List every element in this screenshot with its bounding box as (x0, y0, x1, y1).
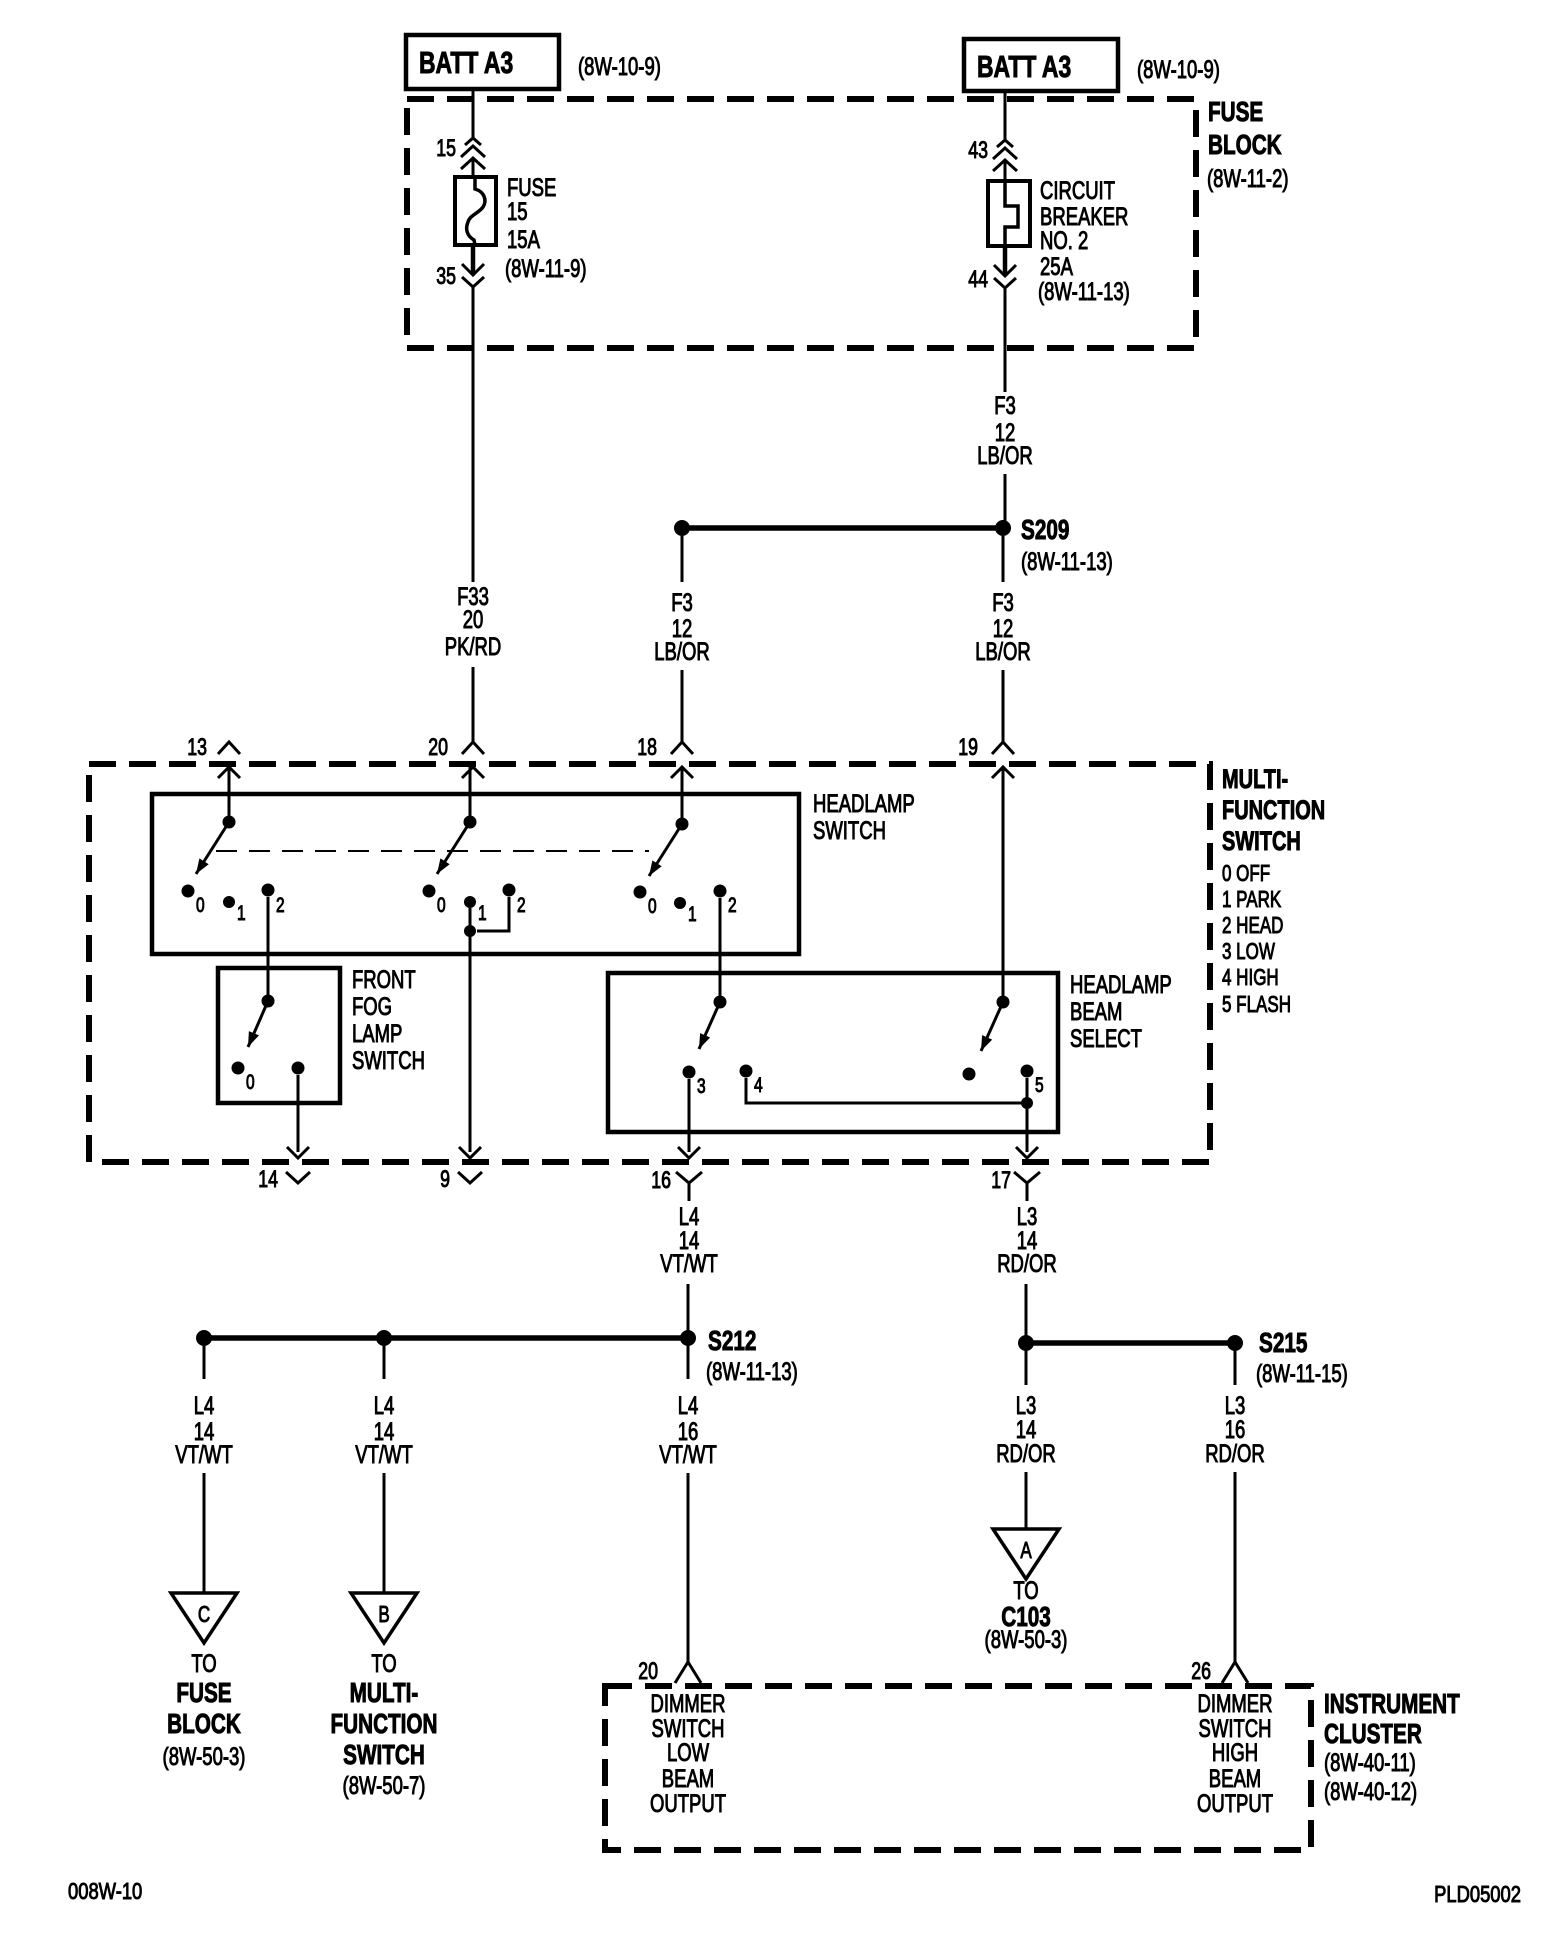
switch pole C wiper (649, 818, 689, 877)
switch pole A wiper (196, 816, 236, 875)
pole C contact 0 (634, 886, 657, 918)
svg-text:NO. 2: NO. 2 (1040, 226, 1088, 254)
connector pin 44 (968, 265, 1016, 293)
wire S209 right branch upper (1002, 536, 1005, 582)
svg-text:PLD05002: PLD05002 (1434, 1882, 1521, 1907)
wire to connector A (1025, 1472, 1028, 1528)
label wire F3 12 LB/OR (right) (975, 588, 1031, 665)
svg-text:1: 1 (237, 901, 246, 925)
svg-text:FUNCTION: FUNCTION (330, 1709, 437, 1740)
svg-text:L4: L4 (194, 1391, 215, 1419)
wire S212 stub middle (383, 1346, 386, 1379)
fuse block enclosure (407, 99, 1196, 348)
svg-text:VT/WT: VT/WT (175, 1440, 233, 1468)
label HEADLAMP SWITCH (813, 789, 915, 844)
svg-text:20: 20 (463, 605, 484, 633)
label wire F33 20 PK/RD (445, 582, 502, 660)
svg-text:L4: L4 (678, 1391, 699, 1419)
svg-text:HEADLAMP: HEADLAMP (1070, 970, 1172, 998)
wire S209 left branch upper (681, 536, 684, 582)
svg-text:14: 14 (258, 1167, 278, 1193)
svg-text:008W-10: 008W-10 (68, 1879, 142, 1904)
svg-text:OUTPUT: OUTPUT (650, 1789, 726, 1817)
wire breaker to pin 44 (1003, 246, 1008, 276)
svg-text:20: 20 (638, 1659, 658, 1685)
svg-text:FOG: FOG (352, 992, 392, 1020)
svg-text:4 HIGH: 4 HIGH (1222, 966, 1279, 991)
fog switch contact 0 (232, 1062, 255, 1094)
svg-text:0: 0 (196, 893, 205, 917)
svg-text:FUSE: FUSE (1208, 97, 1263, 128)
beam select contact 5 (1021, 1065, 1044, 1097)
beam select left wiper (699, 996, 727, 1050)
wire pin16 to S212 (687, 1284, 690, 1332)
label wire L3 14 RD/OR (pin17) (997, 1202, 1057, 1277)
svg-text:18: 18 (637, 735, 657, 761)
headlamp beam select box (608, 973, 1058, 1132)
svg-text:VT/WT: VT/WT (659, 1440, 717, 1468)
svg-text:LAMP: LAMP (352, 1019, 402, 1047)
splice S215 (1018, 1328, 1348, 1388)
svg-text:SELECT: SELECT (1070, 1024, 1142, 1052)
wire fuse to pin 35 (471, 245, 476, 275)
node BATT A3 feed (right) (964, 39, 1118, 91)
svg-text:BLOCK: BLOCK (167, 1709, 241, 1740)
svg-text:43: 43 (968, 138, 988, 164)
label wire F3 12 LB/OR (left) (654, 588, 710, 665)
junction node beam select (1021, 1097, 1033, 1109)
label fuse 15 15A (505, 173, 587, 282)
svg-text:2: 2 (728, 893, 737, 917)
label dimmer switch low beam output (650, 1689, 726, 1817)
wire contact 3 to pin 16 (688, 1079, 691, 1152)
svg-text:SWITCH: SWITCH (813, 816, 886, 844)
wire pin 18 to pole C (681, 767, 684, 824)
svg-text:BLOCK: BLOCK (1208, 130, 1282, 161)
svg-text:20: 20 (428, 735, 448, 761)
svg-text:SWITCH: SWITCH (343, 1740, 425, 1771)
connector pin 13 (MFS) (187, 735, 240, 778)
connector pin 26 (instrument cluster) (1191, 1659, 1248, 1685)
pole B contact 0 (423, 885, 446, 917)
svg-text:BATT A3: BATT A3 (419, 45, 513, 80)
wire pole C contact 2 to beam select (719, 898, 722, 1002)
svg-text:15: 15 (436, 136, 456, 162)
pole C contact 1 (674, 897, 697, 926)
multi-function switch enclosure (89, 764, 1210, 1162)
svg-text:1: 1 (688, 902, 697, 926)
svg-text:2: 2 (276, 893, 285, 917)
label TO FUSE BLOCK (163, 1649, 246, 1770)
link contact 4 to output (746, 1078, 1027, 1103)
svg-text:(8W-11-2): (8W-11-2) (1207, 164, 1289, 192)
wire F3 breaker to S209 (1004, 288, 1007, 392)
svg-text:16: 16 (651, 1168, 671, 1194)
svg-text:13: 13 (187, 735, 207, 761)
svg-text:FRONT: FRONT (352, 965, 416, 993)
switch pole B wiper (437, 816, 477, 875)
svg-text:4: 4 (754, 1073, 763, 1097)
svg-text:LB/OR: LB/OR (654, 637, 710, 665)
label MULTI-FUNCTION SWITCH (1222, 764, 1325, 1018)
label dimmer switch high beam output (1197, 1689, 1273, 1817)
connector pin 16 (MFS exit) (651, 1147, 702, 1201)
connector B to multi-function switch (351, 1593, 417, 1643)
junction node pole B (464, 925, 476, 937)
svg-text:19: 19 (958, 735, 978, 761)
front fog lamp switch box (218, 968, 340, 1103)
svg-text:1: 1 (478, 901, 487, 925)
label FUSE BLOCK (1207, 97, 1289, 193)
connector pin 35 (436, 264, 484, 290)
pole A contact 2 (262, 884, 285, 917)
link pole B contact 2 to junction (477, 897, 509, 931)
wire S212 stub left (203, 1346, 206, 1379)
wire fog switch output (297, 1075, 300, 1152)
svg-text:15A: 15A (507, 225, 540, 253)
svg-text:RD/OR: RD/OR (997, 1249, 1057, 1277)
svg-text:C: C (198, 1603, 210, 1628)
label TO MULTI-FUNCTION SWITCH (330, 1649, 437, 1799)
connector pin 15 (436, 136, 485, 169)
svg-text:MULTI-: MULTI- (1222, 764, 1288, 795)
svg-text:RD/OR: RD/OR (996, 1439, 1056, 1467)
connector pin 19 (MFS) (958, 735, 1014, 778)
svg-text:3: 3 (697, 1074, 706, 1098)
svg-text:(8W-11-15): (8W-11-15) (1256, 1359, 1348, 1387)
svg-text:B: B (378, 1603, 389, 1628)
svg-text:(8W-50-7): (8W-50-7) (343, 1771, 426, 1799)
wire S215 stub left (1025, 1351, 1028, 1385)
svg-text:0: 0 (648, 894, 657, 918)
svg-text:(8W-50-3): (8W-50-3) (163, 1742, 246, 1770)
svg-text:LB/OR: LB/OR (975, 637, 1031, 665)
svg-text:INSTRUMENT: INSTRUMENT (1324, 1689, 1460, 1720)
fog switch output contact (292, 1062, 305, 1075)
svg-text:S215: S215 (1259, 1328, 1308, 1359)
svg-text:44: 44 (968, 267, 988, 293)
svg-text:(8W-50-3): (8W-50-3) (985, 1625, 1068, 1653)
svg-text:BEAM: BEAM (1070, 997, 1122, 1025)
instrument cluster enclosure (605, 1686, 1311, 1850)
svg-text:0: 0 (437, 893, 446, 917)
svg-text:0 OFF: 0 OFF (1222, 862, 1270, 887)
wire pin 13 to pole A (228, 767, 231, 822)
svg-text:HIGH: HIGH (1212, 1738, 1258, 1766)
label wire L4 14 VT/WT (left) (175, 1391, 233, 1468)
svg-text:RD/OR: RD/OR (1205, 1439, 1265, 1467)
svg-text:S209: S209 (1021, 515, 1069, 546)
wire pin 20 to pole B (469, 767, 472, 822)
label HEADLAMP BEAM SELECT (1070, 970, 1172, 1052)
connector pin 20 (instrument cluster) (638, 1659, 701, 1685)
svg-text:5: 5 (1035, 1073, 1044, 1097)
svg-text:PK/RD: PK/RD (445, 632, 502, 660)
wire to connector C (203, 1473, 206, 1592)
svg-text:5 FLASH: 5 FLASH (1222, 993, 1291, 1018)
svg-text:(8W-40-11): (8W-40-11) (1324, 1748, 1416, 1776)
wire pin 19 into beam select (1002, 767, 1005, 1002)
svg-text:15: 15 (507, 197, 528, 225)
beam select contact 4 (740, 1065, 763, 1097)
label wire L4 14 VT/WT (pin16) (660, 1202, 718, 1277)
svg-text:17: 17 (991, 1168, 1011, 1194)
svg-text:TO: TO (371, 1649, 396, 1677)
fuse F15 15A (455, 177, 496, 245)
svg-text:F3: F3 (994, 391, 1016, 419)
wire to instrument cluster pin 26 (1234, 1472, 1237, 1662)
pole B contact 2 (503, 884, 526, 917)
splice S209 (674, 515, 1113, 576)
svg-text:L4: L4 (374, 1391, 395, 1419)
svg-text:A: A (1020, 1539, 1032, 1564)
wire battery to fuse F15 (472, 89, 475, 177)
svg-text:BATT A3: BATT A3 (977, 49, 1071, 84)
svg-text:VT/WT: VT/WT (355, 1440, 413, 1468)
svg-text:1 PARK: 1 PARK (1222, 888, 1282, 913)
wire breaker feed (1004, 91, 1007, 181)
label INSTRUMENT CLUSTER (1324, 1689, 1460, 1806)
circuit breaker No. 2 (988, 181, 1030, 246)
label FRONT FOG LAMP SWITCH (352, 965, 425, 1074)
svg-text:35: 35 (436, 264, 456, 290)
svg-text:(8W-11-13): (8W-11-13) (1038, 277, 1130, 305)
pole C contact 2 (714, 885, 737, 917)
node BATT A3 feed (left) (406, 35, 559, 89)
svg-text:0: 0 (246, 1070, 255, 1094)
label wire L4 16 VT/WT (659, 1391, 717, 1468)
svg-text:FUNCTION: FUNCTION (1222, 795, 1325, 826)
connector C to fuse block (171, 1593, 237, 1643)
svg-text:(8W-10-9): (8W-10-9) (578, 52, 661, 80)
headlamp switch box (152, 794, 799, 954)
svg-text:LB/OR: LB/OR (977, 441, 1033, 469)
wire S215 stub right (1234, 1351, 1237, 1385)
svg-text:26: 26 (1191, 1659, 1211, 1685)
svg-text:F3: F3 (671, 588, 693, 616)
wire S212 stub right (687, 1346, 690, 1379)
svg-text:CIRCUIT: CIRCUIT (1040, 176, 1115, 204)
connector A to C103 (993, 1529, 1059, 1579)
wire contact 5 to pin 17 (1026, 1078, 1029, 1152)
connector pin 17 (MFS exit) (991, 1147, 1040, 1201)
svg-text:(8W-11-13): (8W-11-13) (1021, 547, 1113, 575)
wire pole A contact 2 to fog switch (267, 897, 270, 1001)
label wire L3 14 RD/OR (left) (996, 1391, 1056, 1467)
connector pin 14 (MFS exit) (258, 1147, 310, 1193)
svg-text:CLUSTER: CLUSTER (1324, 1719, 1422, 1750)
beam select right wiper (981, 996, 1010, 1052)
svg-text:HEADLAMP: HEADLAMP (813, 789, 915, 817)
label wire L4 14 VT/WT (middle) (355, 1391, 413, 1468)
connector pin 9 (MFS exit) (440, 1147, 482, 1193)
wire S209 left branch lower (681, 670, 684, 742)
pole B contact 1 (464, 896, 487, 925)
svg-text:MULTI-: MULTI- (350, 1678, 419, 1709)
linkage dashed line (216, 850, 649, 852)
svg-text:(8W-11-13): (8W-11-13) (706, 1357, 798, 1385)
svg-text:(8W-40-12): (8W-40-12) (1324, 1777, 1417, 1805)
beam select right rest contact (963, 1068, 976, 1081)
wire to instrument cluster pin 20 (687, 1473, 690, 1662)
pole A contact 1 (223, 896, 246, 925)
wire to connector B (383, 1473, 386, 1592)
svg-text:(8W-11-9): (8W-11-9) (505, 254, 587, 282)
svg-text:2 HEAD: 2 HEAD (1222, 914, 1283, 939)
svg-text:FUSE: FUSE (176, 1678, 231, 1709)
label wire F3 12 LB/OR (upper) (977, 391, 1033, 469)
wire F33 upper segment (472, 287, 475, 582)
connector pin 18 (MFS) (637, 735, 693, 778)
svg-text:3 LOW: 3 LOW (1222, 940, 1276, 965)
wire pin17 to S215 (1025, 1284, 1028, 1337)
label circuit breaker (1038, 176, 1130, 305)
connector pin 20 (MFS) (428, 735, 484, 778)
svg-text:OUTPUT: OUTPUT (1197, 1789, 1273, 1817)
svg-text:2: 2 (517, 893, 526, 917)
wire into splice S209 (1004, 474, 1007, 523)
wire S209 right branch lower (1002, 670, 1005, 742)
svg-text:F3: F3 (992, 588, 1014, 616)
wire pole B contact 1 down (469, 908, 472, 1152)
label TO C103 (985, 1576, 1068, 1653)
label wire L3 16 RD/OR (1205, 1391, 1265, 1467)
svg-text:VT/WT: VT/WT (660, 1249, 718, 1277)
svg-text:(8W-10-9): (8W-10-9) (1137, 55, 1220, 83)
fog switch wiper (248, 995, 275, 1048)
svg-text:S212: S212 (708, 1326, 756, 1357)
svg-text:SWITCH: SWITCH (352, 1046, 425, 1074)
svg-text:TO: TO (191, 1649, 216, 1677)
wire F33 lower segment (472, 667, 475, 742)
svg-text:TO: TO (1013, 1576, 1038, 1604)
connector pin 43 (968, 138, 1017, 171)
svg-text:SWITCH: SWITCH (1222, 826, 1301, 857)
beam select contact 3 (683, 1066, 706, 1098)
splice S212 (196, 1326, 798, 1386)
svg-text:LOW: LOW (667, 1738, 709, 1766)
svg-text:9: 9 (440, 1167, 450, 1193)
pole A contact 0 (182, 885, 205, 917)
